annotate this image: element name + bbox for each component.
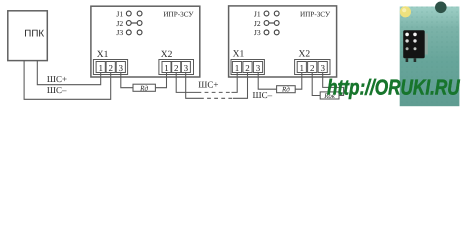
svg-text:1: 1 [235, 63, 240, 73]
wire SHS+ link device1 X2 pin2 to device2 X1 pin1 (partly dashed) [176, 73, 197, 93]
terminal block X1 device 2 [231, 49, 264, 74]
svg-text:ШС+: ШС+ [198, 80, 218, 90]
svg-text:Rд: Rд [281, 86, 290, 94]
terminal block X1 device 1 [93, 50, 127, 74]
svg-text:X2: X2 [161, 50, 173, 60]
svg-text:J1: J1 [254, 9, 261, 18]
resistor Rd device 1 [133, 84, 155, 92]
device U1 IPR-3SU box [91, 6, 200, 77]
photo: component legs [406, 58, 409, 62]
X2 device 2 pin 2 [308, 62, 317, 73]
wire SHS+ from PPK to device 1 X1 pin 1 [37, 61, 100, 85]
jumper J1 device 1 [116, 9, 142, 18]
svg-text:3: 3 [119, 63, 124, 73]
wire resistor Rok to X2 pin3 [323, 73, 344, 96]
svg-text:3: 3 [320, 63, 325, 73]
X1 device 1 pin 1 [96, 62, 105, 73]
svg-text:2: 2 [108, 63, 113, 73]
svg-text:2: 2 [245, 63, 250, 73]
X2 device 1 pin 1 [162, 62, 171, 73]
svg-text:ИПР-3СУ: ИПР-3СУ [300, 11, 331, 19]
control panel PPK box [8, 11, 48, 61]
jumper J3 device 1 [116, 28, 142, 37]
terminal block X2 device 1 [159, 50, 194, 74]
device U2 IPR-3SU box [229, 6, 337, 77]
svg-text:2: 2 [174, 63, 179, 73]
photo: black jumper block [403, 30, 425, 58]
svg-text:J3: J3 [116, 28, 123, 37]
X2 device 2 pin 1 [297, 62, 306, 73]
photo: yellow LED disc [400, 6, 411, 17]
X1 device 2 pin 3 [253, 62, 262, 73]
svg-text:http://ORUKI.RU: http://ORUKI.RU [327, 76, 460, 100]
X2 device 1 pin 2 [172, 62, 181, 73]
X1 device 2 pin 2 [243, 62, 252, 73]
svg-text:1: 1 [300, 63, 305, 73]
photo: pale solder pad right of block [425, 34, 428, 55]
jumper J2 device 1 (closed) [116, 19, 142, 28]
svg-text:1: 1 [164, 63, 169, 73]
photo of IPR-3SU PCB [400, 2, 460, 107]
svg-text:J2: J2 [116, 19, 123, 28]
wire resistor Rd to X2 pin1 device 1 [155, 73, 166, 88]
photo: jumper pins [405, 33, 409, 37]
wire resistor Rd to X2 pin1 device 2 [295, 73, 302, 89]
svg-text:Rд: Rд [139, 84, 148, 92]
photo: dark hole top right [435, 2, 447, 14]
resistor Rok (end of line) [320, 92, 339, 100]
wire SHS- link device1 X2 pin3 to device2 X1 pin2 (partly dashed) [186, 73, 200, 98]
wire X1 pin3 to resistor Rd device 1 [121, 73, 133, 88]
terminal block X2 device 2 [295, 49, 330, 74]
X2 device 2 pin 3 [318, 62, 327, 73]
svg-text:1: 1 [98, 63, 103, 73]
svg-text:ШС+: ШС+ [47, 74, 67, 84]
jumper J1 device 2 [254, 9, 279, 18]
svg-text:J3: J3 [254, 28, 261, 37]
svg-text:J1: J1 [116, 9, 123, 18]
svg-text:3: 3 [184, 63, 189, 73]
wire X1 pin3 to resistor Rd device 2 [258, 73, 276, 89]
jumper J2 device 2 (closed) [254, 19, 279, 28]
svg-text:X2: X2 [299, 49, 311, 59]
jumper J3 device 2 [254, 28, 279, 37]
X1 device 1 pin 2 [106, 62, 115, 73]
X1 device 1 pin 3 [116, 62, 125, 73]
resistor Rd device 2 [277, 86, 296, 94]
svg-text:X1: X1 [233, 49, 245, 59]
svg-text:ИПР-3СУ: ИПР-3СУ [163, 11, 194, 19]
X2 device 1 pin 3 [181, 62, 190, 73]
svg-text:X1: X1 [97, 50, 109, 60]
svg-text:ППК: ППК [24, 29, 44, 40]
svg-text:3: 3 [256, 63, 261, 73]
svg-text:ШС–: ШС– [47, 85, 67, 95]
svg-text:J2: J2 [254, 19, 261, 28]
wire X2 pin2 to resistor Rok [312, 73, 320, 96]
X1 device 2 pin 1 [232, 62, 241, 73]
svg-text:2: 2 [310, 63, 315, 73]
svg-text:ШС–: ШС– [253, 90, 273, 100]
wire SHS- from PPK to device 1 X1 pin 2 [24, 61, 111, 100]
